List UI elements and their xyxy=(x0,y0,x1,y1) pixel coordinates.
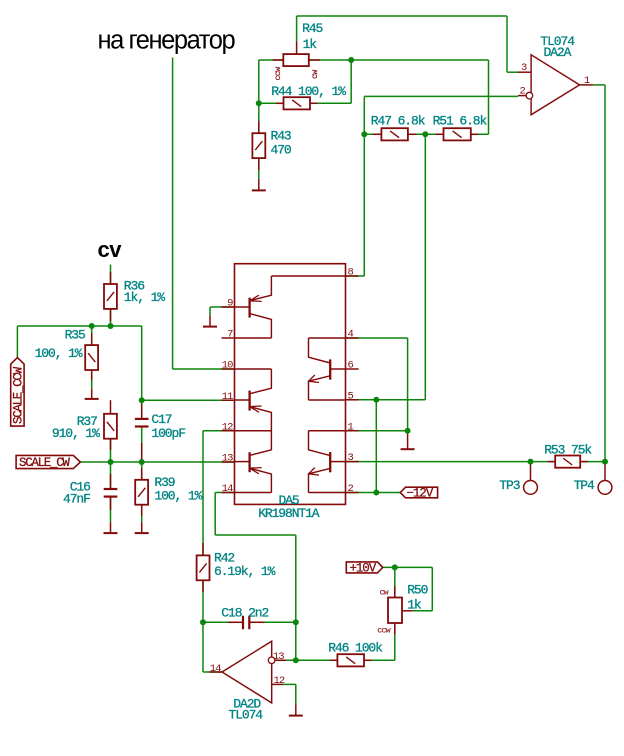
svg-text:2: 2 xyxy=(520,85,526,97)
svg-text:1: 1 xyxy=(584,75,590,87)
svg-text:DA2A: DA2A xyxy=(544,45,572,60)
svg-text:TP3: TP3 xyxy=(499,478,519,493)
svg-text:12: 12 xyxy=(274,675,285,687)
svg-text:TL074: TL074 xyxy=(229,708,264,723)
svg-text:cw: cw xyxy=(380,588,389,597)
svg-text:cv: cv xyxy=(98,237,123,262)
svg-text:R50: R50 xyxy=(407,583,427,598)
svg-text:9: 9 xyxy=(227,298,233,310)
svg-text:100pF: 100pF xyxy=(151,426,185,441)
svg-text:R43: R43 xyxy=(271,128,291,143)
svg-text:14: 14 xyxy=(222,483,233,495)
svg-text:−12V: −12V xyxy=(407,486,434,500)
svg-text:на генератор: на генератор xyxy=(98,27,236,55)
svg-text:3: 3 xyxy=(521,62,527,74)
svg-text:12: 12 xyxy=(222,421,233,433)
svg-text:10: 10 xyxy=(222,360,233,372)
svg-text:R51 6.8k: R51 6.8k xyxy=(433,114,488,129)
svg-text:6.19k, 1%: 6.19k, 1% xyxy=(214,564,276,579)
svg-text:11: 11 xyxy=(222,391,233,403)
svg-text:R53 75k: R53 75k xyxy=(544,442,592,457)
svg-text:100, 1%: 100, 1% xyxy=(154,489,202,504)
svg-text:4: 4 xyxy=(348,329,354,341)
svg-text:SCALE_CW: SCALE_CW xyxy=(19,456,70,470)
svg-text:ccw: ccw xyxy=(273,66,283,81)
svg-text:R47 6.8k: R47 6.8k xyxy=(371,114,426,129)
svg-text:1k: 1k xyxy=(303,37,318,52)
svg-text:1k: 1k xyxy=(407,598,422,613)
svg-text:TP4: TP4 xyxy=(574,478,595,493)
svg-text:1: 1 xyxy=(348,421,354,433)
svg-text:R35: R35 xyxy=(65,328,85,343)
svg-text:SCALE_CCW: SCALE_CCW xyxy=(11,366,25,424)
svg-text:910, 1%: 910, 1% xyxy=(52,426,100,441)
svg-text:6: 6 xyxy=(348,360,354,372)
svg-text:470: 470 xyxy=(271,142,291,157)
svg-text:C18 2n2: C18 2n2 xyxy=(221,606,268,621)
svg-text:100, 1%: 100, 1% xyxy=(35,346,83,361)
svg-text:R44 100, 1%: R44 100, 1% xyxy=(271,84,346,99)
svg-text:KR198NT1A: KR198NT1A xyxy=(258,506,320,521)
svg-text:R45: R45 xyxy=(302,21,322,36)
svg-text:C17: C17 xyxy=(151,412,171,427)
svg-text:1k, 1%: 1k, 1% xyxy=(124,290,166,305)
svg-text:3: 3 xyxy=(348,452,354,464)
svg-text:ccw: ccw xyxy=(377,627,390,636)
svg-text:+10V: +10V xyxy=(350,561,377,575)
svg-text:7: 7 xyxy=(227,329,233,341)
svg-text:5: 5 xyxy=(348,390,354,402)
svg-text:2: 2 xyxy=(348,483,354,495)
svg-text:13: 13 xyxy=(273,651,284,663)
svg-text:8: 8 xyxy=(348,267,354,279)
svg-text:47nF: 47nF xyxy=(63,492,90,507)
svg-text:14: 14 xyxy=(210,663,221,675)
svg-text:13: 13 xyxy=(222,453,233,465)
svg-text:R46 100k: R46 100k xyxy=(328,641,383,656)
